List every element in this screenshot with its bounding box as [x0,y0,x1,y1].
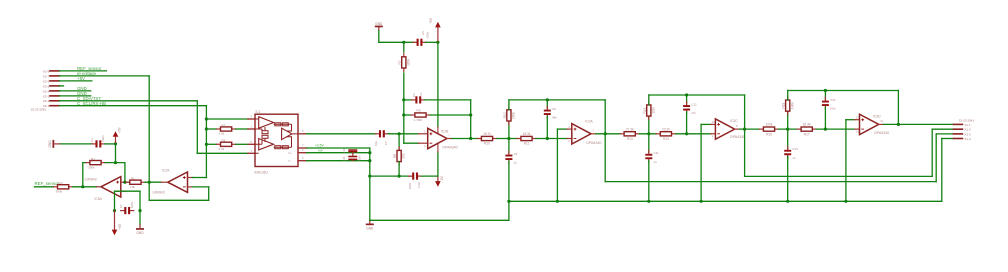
svg-text:18.7k: 18.7k [483,132,491,136]
wire IC2B out [452,138,478,140]
wire rail4 down to out [897,91,899,125]
svg-text:R18: R18 [782,102,786,108]
pin lead IC3D -in [855,128,860,130]
junction C16 top [824,89,827,92]
feedback vertical to output [470,100,472,139]
wire C16 bottom [824,107,826,129]
svg-text:C10: C10 [417,182,421,188]
wire IC3D out to X1-1 [884,123,954,125]
svg-text:R17: R17 [804,132,810,136]
svg-text:C5: C5 [514,152,518,156]
svg-text:IC3A: IC3A [585,119,593,123]
svg-text:+5V: +5V [429,17,433,24]
wire node down [403,100,405,115]
wire X2-2 [59,100,197,102]
svg-text:100n: 100n [130,201,134,208]
wire R14 right [676,133,711,135]
svg-text:100k: 100k [766,123,773,127]
pin lead IC2B out [447,138,452,140]
svg-text:C15: C15 [342,156,346,161]
wire X2-1 down to IC2A +in [205,106,207,178]
svg-text:R3: R3 [59,181,63,185]
wire R1 row right [105,162,125,164]
svg-text:R16: R16 [766,132,772,136]
ground GND left-bottom [139,225,141,228]
junction C3 left [113,209,116,212]
supply -5V arrow down [435,181,441,187]
svg-text:+5V: +5V [118,127,122,134]
resistor R13 27.3k [620,133,624,135]
wire X2-8 REF_sensor [59,70,106,72]
svg-text:IC3C: IC3C [730,119,738,123]
wire R15 top [648,95,650,105]
wire X1-2 horizontal run [745,175,933,177]
svg-text:200k: 200k [512,112,516,119]
wire C7 to IC2B +in [388,133,418,135]
pin lead IC2B -in [419,142,428,144]
ground GND mid [369,220,371,223]
wire to INA pin 3 [197,152,248,154]
pin stub INA pin5 REF [298,152,307,154]
junction R8/C10 row [398,175,401,178]
svg-text:X1-4: X1-4 [964,137,971,141]
svg-text:V+: V+ [288,151,292,155]
svg-text:IC2B: IC2B [441,130,449,134]
svg-text:LMV842: LMV842 [153,191,165,195]
svg-text:X1-2: X1-2 [964,128,971,132]
wire X2-5 stub [59,85,63,87]
capacitor C16 6.8n [824,97,826,100]
wire X1-2 rise [931,129,933,176]
wire R11 right [536,138,567,140]
capacitor C11 1u [648,150,650,153]
svg-text:R1: R1 [91,157,95,161]
junction C8 top [546,98,549,101]
svg-text:IC2A: IC2A [162,168,170,172]
wire X2-2 down to INA pin3 row [196,101,198,154]
wire X1-4 row [942,138,954,140]
svg-text:100n: 100n [426,31,430,38]
wire IC2A -in elbow [192,186,208,188]
IC1 internal input op-amp top [259,117,274,129]
svg-text:REF_sensor: REF_sensor [35,181,60,186]
pin lead IC3D out [879,123,884,125]
pin lead IC2A out [161,181,166,183]
svg-text:C1: C1 [90,138,94,142]
wire R6 to INA pin8 [236,143,248,145]
capacitor C9 100n [413,41,417,43]
feedback rail stage4 [788,90,899,92]
junction C13/ref rail [786,200,789,203]
svg-text:R2: R2 [131,176,135,180]
wire IC3C +in down to ref rail [700,124,702,201]
svg-text:1u: 1u [514,161,518,165]
pin lead IC5A -in top [121,181,126,183]
wire X1-2 row [932,128,953,130]
resistor R6 2.6k [217,143,221,145]
wire C16 top [824,91,826,100]
junction C5/ref rail [507,200,510,203]
feedback rail stage2 [509,99,605,101]
resistor R9 1.79M feedback [411,114,415,116]
resistor R8 20k vertical [398,147,400,150]
vertical ref wire at x369 [369,148,371,176]
svg-text:27n: 27n [691,111,696,115]
instrumentation amp IC1 INA126U box [255,114,298,166]
pin stub INA pin4 V- [298,160,307,162]
pin lead IC3C out [735,128,740,130]
wire +in row under triangle [115,190,141,192]
svg-text:10u: 10u [374,141,378,146]
wire C6 row right [425,99,471,101]
svg-text:R7: R7 [398,60,402,64]
junction R1 feedback [123,181,126,184]
svg-text:+5V: +5V [118,223,122,230]
svg-text:2.6k: 2.6k [219,132,225,136]
resistor R16 100k [759,128,763,130]
svg-text:1n: 1n [419,92,423,96]
wire X2-6 +5V [59,80,92,82]
wire R12 bottom [508,121,510,139]
wire X2-1 [59,105,206,107]
svg-text:R8: R8 [393,154,397,158]
svg-text:140k: 140k [790,102,794,109]
wire V+ row A [307,147,370,149]
supply +5V arrow left [113,131,119,137]
junction fb/output row [469,137,472,140]
wire R10-R11 [497,138,517,140]
resistor R2 10k [126,181,130,183]
wire IC3A +in down to ref rail [556,129,558,201]
wire GND down [378,31,380,43]
connector pin X1-4 [954,138,963,140]
junction +5V line [436,41,439,44]
resistor R14 23.2k [656,133,660,135]
wire X1-3 rise [935,134,937,182]
wire C10 row left [370,175,411,177]
junction C10 row [368,175,371,178]
svg-text:V-: V- [288,159,291,163]
junction X2-1 vertical / R5 row [205,127,208,130]
resistor R7 100k vertical [403,53,405,56]
svg-text:LMV842: LMV842 [85,178,97,182]
junction IC3D+/ref rail [844,200,847,203]
op-amp IC2A LMV842 [168,172,188,192]
junction row B [368,151,371,154]
junction C3 right [138,209,141,212]
junction row C [368,159,371,162]
capacitor C7 10u series [375,133,379,135]
svg-text:+5V: +5V [318,149,323,153]
junction +in/ref rail [556,200,559,203]
resistor R5 2.6k [217,128,221,130]
pin lead IC3C -in [711,133,716,135]
op-amp IC3A OPA4340 [572,124,591,144]
wire IC3C +in elbow [701,123,711,125]
svg-text:OPA4340: OPA4340 [730,135,745,139]
wire X2-4 GND [59,90,90,92]
wire REF_sensor [35,186,54,188]
ref rail main segment [509,200,942,202]
svg-text:GND: GND [48,140,52,148]
svg-text:OPA4340: OPA4340 [586,141,601,145]
capacitor C14 100n [348,149,357,151]
wire R16-R17 [779,128,798,130]
wire R9 row right [430,114,471,116]
junction out4 [897,123,900,126]
op-amp IC3C OPA4340 [715,119,734,139]
svg-text:X1-1: X1-1 [964,123,971,127]
connector pin X1-3 [954,133,963,135]
pin lead IC5A out [97,186,102,188]
wire R1 row left elbow [83,162,86,164]
resistor R11 18.3k [517,138,521,140]
pin stub IC2B V- wire [437,152,439,176]
svg-text:R6: R6 [222,139,226,143]
svg-text:R13: R13 [627,137,633,141]
resistor R1 390k feedback [86,162,90,164]
svg-text:10k: 10k [130,185,135,189]
svg-text:390k: 390k [56,190,63,194]
junction out2 [604,132,607,135]
svg-text:C11: C11 [654,151,659,155]
wire X1-3 row [936,133,953,135]
pin lead IC3A out [591,133,596,135]
svg-text:X2-4: X2-4 [43,89,50,93]
svg-text:INA126U: INA126U [255,171,269,175]
svg-text:27.3k: 27.3k [626,127,634,131]
junction R1 row [114,161,117,164]
svg-text:20k: 20k [402,153,406,159]
wire IC2A +in to X2-1 vertical [192,177,206,179]
wire INA out [307,133,376,135]
capacitor C6 1n feedback [412,99,416,101]
pin stub INA pin8 [248,143,255,145]
junction C12 top [685,93,688,96]
resistor R15 10M vertical [648,102,650,105]
junction output/R1 [81,185,84,188]
junction R9/fb [469,113,472,116]
svg-text:C7: C7 [384,141,388,145]
wire to INA pin 2 [206,118,248,120]
connector pin X1-1 [954,123,963,125]
pin stub INA pin7 V+ [298,147,307,149]
wire C11 top [648,134,650,153]
wire -in row [125,181,130,183]
svg-text:22-23-2081: 22-23-2081 [31,108,47,112]
wire +in right down [139,191,141,210]
wire R8 bottom [398,162,400,177]
wire -in elbow to IC2B [404,142,419,144]
wire C9 to +5V line [426,41,438,43]
wire node down to R1 row [115,144,117,163]
svg-text:X2-5: X2-5 [43,84,50,88]
wire V- row C [307,160,370,162]
svg-text:R12: R12 [503,112,507,118]
svg-text:IC5A: IC5A [95,197,103,201]
svg-text:OPA4340: OPA4340 [874,131,889,135]
wire R18 bottom [787,111,789,129]
svg-text:X2-8: X2-8 [43,69,50,73]
wire X2-7 down to IC2A output row [148,76,150,200]
pin lead IC5A +in bottom [121,190,126,192]
junction C16 bottom [824,128,827,131]
wire C13 bottom [787,157,789,202]
svg-text:1.79M: 1.79M [414,118,423,122]
wire R13-R14 [639,133,656,135]
wire IC3D +in down to ref rail [845,120,847,202]
wire R5 row left [206,128,216,130]
svg-text:48n: 48n [552,116,557,120]
wire +in left down [114,191,116,210]
pin stub IC2B V+ [437,127,439,134]
svg-text:OPA4340: OPA4340 [442,146,457,150]
ref rail rise to X1-4 [941,139,943,202]
wire X2-3 GND [59,95,90,97]
junction R8 node on main row [398,132,401,135]
svg-text:18.3k: 18.3k [523,132,531,136]
svg-text:-5V: -5V [440,175,444,181]
svg-text:IC3D: IC3D [873,115,881,119]
svg-text:X1-3: X1-3 [964,132,971,136]
svg-text:C9: C9 [421,31,425,35]
wire C12 bottom [686,112,688,134]
wire R12 top [508,100,510,110]
junction X2-1 vertical / INA pin2 row [205,117,208,120]
pin lead IC3A -in [567,138,572,140]
junction R9 row [402,113,405,116]
svg-text:C12: C12 [691,103,697,107]
junction at R2/el-voltage node [148,181,151,184]
pin lead IC2A +in top [188,177,193,179]
wire C8 bottom [546,116,548,138]
wire out2 down to X1-3 run [604,134,606,182]
pin stub INA pin2 [248,118,255,120]
svg-text:100n: 100n [101,135,105,142]
feedback rail stage3 [649,94,745,96]
supply +5V arrow down left [112,230,118,236]
wire GND drop [139,211,141,225]
wire +5V down to IC2B V+ [437,42,439,127]
wire C1 to +5V node [105,143,116,145]
svg-text:X2-3: X2-3 [43,94,50,98]
svg-text:R11: R11 [524,142,530,146]
capacitor C8 48n [546,106,548,109]
wire R3 to IC5A out [73,186,97,188]
wire -in down [208,187,210,200]
junction out3 [743,128,746,131]
pin lead IC3C +in [711,123,716,125]
IC1 internal input op-amp bottom [259,139,274,150]
junction C12 bottom [685,132,688,135]
svg-text:R14: R14 [663,137,669,141]
svg-text:2.6k: 2.6k [219,147,225,151]
svg-text:82.4k: 82.4k [803,123,811,127]
wire rail3 down to out [744,95,746,129]
capacitor C15 100n [348,156,357,158]
pin stub INA pin1 [248,128,255,130]
pin lead IC3A +in [567,128,572,130]
svg-text:22-23-2041: 22-23-2041 [959,118,975,122]
svg-text:X2-2: X2-2 [43,99,50,103]
wire R7 to C6/R9 node [403,73,405,100]
wire IC3A out [596,133,620,135]
svg-text:1u: 1u [654,160,658,164]
wire R8 top [398,134,400,151]
wire feedback bottom [149,199,209,201]
wire R1 elbow down to +in row [124,163,126,183]
wire C13 top [787,129,789,148]
wire REF row B [307,152,370,154]
svg-text:GND: GND [136,231,144,235]
svg-text:R5: R5 [222,123,226,127]
svg-text:1u: 1u [792,156,796,160]
wire R15 bottom [648,116,650,134]
wire IC3A +in elbow [557,128,567,130]
op-amp IC5A LMV842 [101,177,121,197]
capacitor C5 1u [508,151,510,154]
svg-text:10M: 10M [651,107,655,114]
svg-text:C13: C13 [792,147,798,151]
resistor R12 200k vertical [508,106,510,109]
IC1 internal resistor network [275,123,281,126]
supply +5V arrow top [435,22,441,28]
svg-text:GND: GND [375,22,383,26]
capacitor C1 100n [92,143,96,145]
pin stub INA pin6 output [298,133,307,135]
pin lead IC2A -in bottom [188,186,193,188]
svg-text:100n: 100n [408,182,412,189]
svg-text:6.8n: 6.8n [830,107,836,111]
wire IC3C out [739,128,759,130]
op-amp IC3D OPA4340 [860,114,879,134]
resistor R3 390k [54,186,58,188]
svg-text:C6: C6 [412,93,416,97]
junction C11/ref rail [647,200,650,203]
svg-text:23.2k: 23.2k [662,127,670,131]
op-amp IC2B OPA2340 [428,128,447,148]
junction C6 row [402,98,405,101]
svg-text:X2-7: X2-7 [43,74,50,78]
junction X2-1 vertical / R6 row [205,143,208,146]
wire rail2 down to out [604,100,606,134]
svg-text:IC1: IC1 [256,110,261,114]
svg-text:390k: 390k [88,165,95,169]
wire R6 row left [206,143,216,145]
wire C5 top [508,139,510,154]
wire GND to C1 [60,143,92,145]
wire R5 to INA pin1 [236,128,248,130]
resistor R10 18.7k [477,138,481,140]
capacitor C10 100n [409,175,413,177]
resistor R17 82.4k [797,128,801,130]
wire R2 to IC2A out [145,181,161,183]
wire C10 row right [421,175,438,177]
svg-text:X2-6: X2-6 [43,79,50,83]
svg-text:100n: 100n [357,155,361,161]
wire R17 right [816,128,854,130]
wire out3 down to X1-2 run [744,129,746,176]
junction R7 top [402,41,405,44]
svg-text:C3: C3 [119,204,123,208]
svg-text:R9: R9 [417,109,421,113]
resistor R18 140k vertical [787,97,789,100]
ref rail lower left segment [370,219,509,221]
IC1 internal connections [255,119,298,153]
wire C8 top [546,100,548,108]
wire X2-7 el-voltage [59,75,149,77]
pin stub INA pin3 [248,152,255,154]
